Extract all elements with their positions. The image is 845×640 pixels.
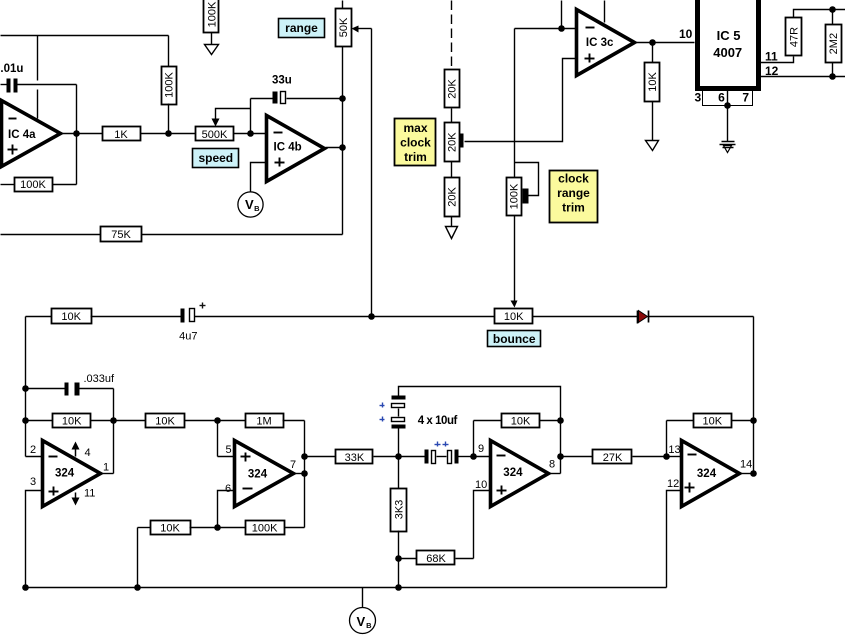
- resistor 100K feedback IC 4a: [1, 178, 77, 192]
- svg-text:2: 2: [30, 444, 36, 456]
- wire 50K top: [342, 1, 344, 9]
- node IC 3c inverting: [558, 25, 565, 32]
- wire inverting node to top: [561, 1, 563, 29]
- wire IC 3c inverting: [515, 28, 577, 30]
- resistor 10K bounce: [495, 309, 533, 324]
- svg-text:10K: 10K: [62, 416, 82, 428]
- potentiometer 20K b: [445, 123, 464, 162]
- node op2 fb bottom: [214, 524, 221, 531]
- capacitor 4u7: [179, 303, 205, 343]
- capacitor 33u: [251, 75, 343, 104]
- resistor 33K: [305, 450, 399, 464]
- wire clock trim column: [514, 29, 516, 178]
- resistor 10K feedback op3: [474, 414, 561, 428]
- wire 1M column down: [304, 421, 306, 528]
- pin 2: [26, 444, 43, 457]
- svg-text:speed: speed: [198, 151, 233, 165]
- capacitor .033uf: [26, 373, 116, 396]
- svg-text:13: 13: [668, 444, 680, 456]
- node 33K tap: [301, 453, 308, 460]
- wire 10K op4 riser: [666, 421, 668, 457]
- pin 13: [667, 444, 682, 457]
- wire IC 3c output to IC 5 pin 10: [637, 42, 695, 44]
- label clock range trim: [550, 171, 598, 223]
- wire inverting node up: [250, 99, 252, 134]
- svg-text:100K: 100K: [509, 183, 521, 209]
- svg-text:4 x 10uf: 4 x 10uf: [418, 415, 458, 427]
- svg-text:8: 8: [549, 459, 555, 471]
- svg-text:20K: 20K: [447, 186, 459, 206]
- potentiometer 100K clock range: [507, 178, 529, 216]
- wire left riser top: [25, 317, 27, 457]
- svg-text:68K: 68K: [426, 553, 446, 565]
- svg-text:2M2: 2M2: [828, 33, 840, 54]
- pin 1 output: [102, 462, 114, 474]
- svg-text:IC 4a: IC 4a: [8, 129, 36, 141]
- resistor 100K vertical: [162, 67, 177, 105]
- svg-text:33u: 33u: [272, 75, 292, 87]
- ground arrow 10K: [646, 141, 659, 151]
- svg-text:IC 4b: IC 4b: [274, 142, 302, 154]
- label speed: [193, 149, 239, 168]
- resistor 10K series: [146, 414, 246, 428]
- svg-text:range: range: [285, 21, 318, 35]
- op-amp U2 324: [235, 441, 294, 507]
- svg-text:500K: 500K: [202, 129, 228, 141]
- wire stub to IC 4a inverting area: [37, 36, 39, 81]
- wire 100K pot down with arrow: [514, 216, 516, 301]
- node riser 10K: [22, 417, 29, 424]
- svg-text:4007: 4007: [713, 45, 742, 60]
- op-amp U1 324: [43, 441, 101, 507]
- capacitor 10uf d horizontal pair: [435, 442, 474, 464]
- potentiometer 50K: [336, 9, 372, 47]
- svg-text:324: 324: [503, 467, 523, 479]
- label bounce: [488, 331, 541, 347]
- svg-text:100K: 100K: [20, 179, 46, 191]
- svg-text:10: 10: [475, 479, 487, 491]
- svg-text:range: range: [557, 186, 590, 200]
- node riser 033: [22, 385, 29, 392]
- wire diode to right column: [649, 316, 754, 318]
- power VB bias bottom: [350, 588, 376, 634]
- node op2 output: [301, 470, 308, 477]
- resistor 27K: [561, 450, 667, 464]
- wire 50K wiper down to bounce row: [371, 29, 373, 317]
- resistor 100K op2: [218, 521, 305, 535]
- svg-text:10K: 10K: [703, 416, 723, 428]
- pins 3 6 7 block: [694, 91, 752, 106]
- svg-text:324: 324: [248, 469, 268, 481]
- wire 4u7 to bounce row: [195, 316, 495, 318]
- node 3K3 68K: [395, 555, 402, 562]
- resistor 100K to ground top middle: [204, 0, 219, 55]
- resistor 10K feedback op4: [667, 414, 754, 428]
- node op4 out column 10K: [750, 417, 757, 424]
- svg-text:10K: 10K: [504, 311, 524, 323]
- svg-text:4u7: 4u7: [179, 331, 197, 343]
- capacitor 0.01u: [0, 63, 77, 93]
- op-amp IC 3c: [577, 10, 635, 76]
- pin 9: [474, 443, 491, 457]
- svg-text:27K: 27K: [603, 452, 623, 464]
- resistor 2M2: [826, 10, 842, 77]
- wire node to 10K: [652, 43, 654, 63]
- wire 100K column bottom: [168, 104, 170, 134]
- svg-text:100K: 100K: [206, 1, 218, 27]
- svg-text:100K: 100K: [252, 523, 278, 535]
- node op4 inverting: [663, 453, 670, 460]
- node 100K column: [165, 130, 172, 137]
- ground arrow 20K chain: [446, 227, 458, 239]
- svg-text:6: 6: [718, 91, 725, 105]
- svg-text:9: 9: [478, 443, 484, 455]
- svg-text:10K: 10K: [155, 416, 175, 428]
- wire 20K a-b: [451, 109, 453, 123]
- node op3 out column 27K: [557, 453, 564, 460]
- wire to ground: [727, 106, 729, 142]
- svg-text:14: 14: [740, 459, 752, 471]
- pin 11: [761, 50, 794, 64]
- svg-text:1K: 1K: [114, 129, 128, 141]
- svg-text:12: 12: [667, 478, 679, 490]
- svg-text:3K3: 3K3: [394, 500, 406, 520]
- svg-text:1M: 1M: [256, 416, 271, 428]
- wire wiper to IC 3c non-inverting: [465, 59, 577, 142]
- wire right column down: [753, 317, 755, 474]
- svg-text:50K: 50K: [338, 17, 350, 37]
- wire IC 4b output: [326, 147, 343, 149]
- svg-text:7: 7: [290, 459, 296, 471]
- svg-text:bounce: bounce: [493, 332, 536, 346]
- op-amp U3 324: [491, 441, 549, 507]
- node 47R 2M2 top: [829, 6, 836, 13]
- wire 100K pot wiper loop: [515, 163, 539, 196]
- wire output node vertical: [76, 85, 78, 185]
- ground earth symbol: [720, 142, 736, 153]
- pin 11 arrow down: [72, 488, 96, 506]
- wire 50K bottom column: [342, 47, 344, 235]
- node range column bounce row: [368, 313, 375, 320]
- power VB bias top: [238, 192, 263, 217]
- node IC 4b inverting: [247, 130, 254, 137]
- svg-text:clock: clock: [400, 136, 431, 150]
- svg-text:20K: 20K: [447, 79, 459, 99]
- potentiometer 500K: [196, 109, 251, 142]
- node 2M2 pin12: [829, 73, 836, 80]
- svg-text:5: 5: [226, 444, 232, 456]
- node rail 3K3: [395, 584, 402, 591]
- IC U5 4007: [698, 0, 759, 89]
- op-amp IC 4b: [267, 116, 325, 182]
- svg-text:324: 324: [697, 468, 717, 480]
- svg-text:10K: 10K: [511, 416, 531, 428]
- op-amp U4 324: [682, 441, 740, 507]
- svg-text:33K: 33K: [345, 452, 365, 464]
- svg-text:3: 3: [694, 91, 701, 105]
- svg-text:7: 7: [742, 91, 749, 105]
- node rail left: [22, 584, 29, 591]
- resistor 68K: [399, 551, 474, 566]
- resistor 20K a: [445, 70, 460, 108]
- diode D1: [638, 311, 649, 324]
- node 10K feedback output: [110, 417, 117, 424]
- svg-text:47R: 47R: [789, 27, 801, 47]
- svg-text:10K: 10K: [61, 311, 81, 323]
- svg-text:clock: clock: [558, 172, 589, 186]
- pin 4 arrow up: [72, 442, 91, 460]
- svg-text:11: 11: [765, 50, 778, 64]
- wire 10K op3 riser: [473, 421, 475, 457]
- svg-text:75K: 75K: [111, 229, 131, 241]
- node IC 4a output: [73, 130, 80, 137]
- pin 10: [474, 479, 491, 559]
- node IC 4b output: [339, 144, 346, 151]
- node pins 367: [724, 102, 731, 109]
- wire 10K bias to rail: [137, 528, 139, 588]
- svg-text:trim: trim: [404, 150, 427, 164]
- op-amp IC 4a: [2, 101, 61, 167]
- resistor 10K input: [26, 309, 181, 324]
- pin 8 output: [549, 459, 561, 474]
- wire 20K c to arrow: [451, 217, 453, 227]
- resistor 1K: [103, 127, 141, 142]
- node 33K caps 3K3: [395, 453, 402, 460]
- pin 12 op4: [667, 478, 682, 588]
- node op3 out column 10K: [557, 417, 564, 424]
- resistor 10K pulldown: [645, 63, 660, 102]
- svg-text:V: V: [357, 614, 366, 629]
- pin 7 output: [290, 459, 305, 474]
- wire 500K to IC 4b inverting: [234, 133, 267, 135]
- svg-text:B: B: [366, 621, 372, 630]
- svg-text:IC 5: IC 5: [717, 28, 741, 43]
- resistor 20K c: [445, 178, 460, 217]
- wire stub to IC 3c hypotenuse: [604, 1, 606, 23]
- resistor 3K3: [391, 457, 407, 588]
- svg-text:10: 10: [679, 27, 693, 41]
- svg-text:10K: 10K: [160, 523, 180, 535]
- svg-text:V: V: [245, 197, 254, 212]
- wire bounce to diode: [533, 316, 638, 318]
- pin 14 output: [740, 459, 754, 474]
- capacitor 10uf b vertical pair: [380, 417, 406, 457]
- svg-text:6: 6: [225, 483, 231, 495]
- wire 10K to ground arrow: [652, 102, 654, 141]
- wire 1K to 500K: [141, 133, 196, 135]
- resistor 75K: [1, 227, 343, 242]
- label range: [279, 19, 325, 38]
- node rail 10K bias: [134, 584, 141, 591]
- svg-text:11: 11: [84, 488, 95, 500]
- resistor 47R: [786, 10, 845, 56]
- node op4 output: [750, 470, 757, 477]
- svg-text:10K: 10K: [647, 71, 659, 91]
- resistor 10K bias op2: [138, 521, 218, 535]
- wire stub to IC 4a hypotenuse: [37, 90, 39, 119]
- wire 100K column top: [168, 36, 170, 67]
- bottom rail: [26, 587, 667, 589]
- svg-text:20K: 20K: [447, 132, 459, 152]
- svg-text:100K: 100K: [164, 71, 176, 97]
- capacitor 10uf c horizontal pair: [399, 450, 447, 464]
- svg-text:4: 4: [85, 447, 91, 459]
- wire IC 4b non-inverting: [251, 163, 267, 192]
- wire op3 feedback top loop: [399, 387, 561, 474]
- svg-text:trim: trim: [562, 201, 585, 215]
- node 33u right: [339, 95, 346, 102]
- wire IC 4a output: [61, 133, 103, 135]
- node output 10K: [649, 39, 656, 46]
- wire dashed supply: [451, 1, 453, 70]
- svg-text:B: B: [254, 204, 260, 213]
- pin 6: [218, 483, 235, 528]
- pin 5: [218, 444, 235, 457]
- svg-text:0.01u: 0.01u: [0, 63, 23, 75]
- wire 20K b-c: [451, 162, 453, 178]
- svg-text:1: 1: [103, 462, 109, 474]
- svg-text:324: 324: [55, 468, 75, 480]
- node op3 inverting: [470, 453, 477, 460]
- label max clock trim: [395, 119, 436, 166]
- wire output riser op1: [113, 389, 115, 474]
- svg-text:3: 3: [30, 476, 36, 488]
- resistor 10K feedback op1: [26, 414, 146, 428]
- resistor 1M: [246, 414, 305, 428]
- svg-text:.033uf: .033uf: [84, 373, 116, 385]
- svg-text:max: max: [403, 121, 427, 135]
- node op2 input column: [214, 417, 221, 424]
- pin 12: [761, 64, 845, 78]
- wire op2 inverting column: [217, 421, 219, 457]
- capacitor 10uf a vertical pair: [380, 396, 406, 417]
- wire top feedback rail: [1, 35, 169, 37]
- svg-text:IC 3c: IC 3c: [586, 37, 614, 49]
- pin 3: [26, 476, 43, 588]
